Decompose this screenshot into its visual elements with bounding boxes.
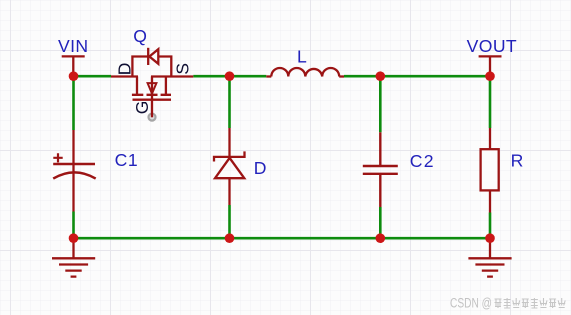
C2 top pin [379, 132, 381, 166]
ground left [52, 238, 95, 276]
junction L-C2 node [376, 71, 386, 81]
svg-text:L: L [297, 46, 307, 66]
C1 plus sign [53, 153, 62, 162]
svg-text:D: D [114, 63, 134, 76]
svg-text:C2: C2 [410, 151, 435, 171]
wire Q source to node SW [193, 75, 266, 78]
junction ground rail right [485, 233, 495, 243]
junction VOUT [485, 71, 495, 81]
Q body-diode cathode bar [147, 48, 149, 65]
wire diode D to ground rail [228, 205, 231, 238]
svg-text:S: S [173, 63, 193, 75]
svg-text:G: G [132, 101, 152, 115]
junction ground rail C2 [376, 233, 386, 243]
watermark CSDN [450, 296, 565, 311]
junction ground rail left [69, 233, 79, 243]
wire SW node down to diode D [228, 76, 231, 128]
C1 middle stub [72, 164, 74, 173]
diode D schottky [214, 128, 245, 205]
L right pin [339, 75, 344, 77]
C2 bottom pin [379, 174, 381, 207]
D cathode bar with hooks [214, 151, 245, 161]
junction ground rail D [225, 233, 235, 243]
L winding humps [271, 68, 339, 77]
svg-text:C1: C1 [115, 150, 139, 170]
D triangle [215, 158, 244, 178]
ground right [468, 238, 511, 276]
power port VOUT [467, 36, 517, 75]
C2 bottom plate [363, 173, 398, 175]
D top pin [228, 128, 230, 158]
wire bottom ground rail [74, 237, 491, 240]
resistor R [481, 128, 499, 213]
junction VIN [69, 71, 79, 81]
Q gate bar [133, 99, 172, 101]
svg-text:D: D [254, 158, 267, 178]
C1 top pin [72, 130, 74, 164]
R bottom pin [489, 190, 491, 212]
Q left channel connection [136, 77, 138, 95]
wire top rail VIN to Q drain [74, 75, 112, 78]
D bottom pin [228, 178, 230, 205]
svg-text:VIN: VIN [58, 36, 89, 56]
wire C2 to ground rail [379, 207, 382, 238]
wire VOUT node down to C2 [379, 76, 382, 132]
R body [481, 149, 499, 190]
wire C1 to ground rail [72, 212, 75, 239]
capacitor C1 polarized [53, 130, 95, 212]
Q gate unconnected pin marker [149, 114, 156, 121]
inductor L [266, 68, 344, 77]
Q body-diode triangle [149, 49, 158, 64]
wire L to VOUT [344, 75, 490, 78]
svg-text:VOUT: VOUT [467, 36, 517, 56]
power port VIN [58, 36, 89, 75]
transistor Q1 P-MOSFET [111, 48, 193, 118]
C1 curved plate [53, 172, 95, 178]
Q drain pin [111, 75, 138, 77]
svg-text:R: R [511, 150, 524, 170]
Q source pin segment [151, 75, 193, 77]
wire VIN node down to C1 [72, 76, 75, 130]
L left pin [266, 75, 271, 77]
Q channel bars [132, 94, 171, 96]
C1 positive plate [53, 163, 95, 166]
wire VOUT node down to R [489, 76, 492, 128]
svg-text:Q: Q [133, 26, 147, 46]
R top pin [489, 128, 491, 149]
capacitor C2 [363, 132, 398, 207]
Q arrow head [148, 83, 157, 94]
Q body-diode rail [132, 57, 171, 78]
C2 top plate [363, 165, 398, 167]
Q right channel connection [165, 77, 167, 95]
svg-text:CSDN @: CSDN @ [450, 296, 492, 311]
Q source arrow line [151, 77, 153, 118]
junction SW node top [225, 71, 235, 81]
C1 bottom pin [72, 173, 74, 212]
wire R to ground rail [489, 213, 492, 239]
